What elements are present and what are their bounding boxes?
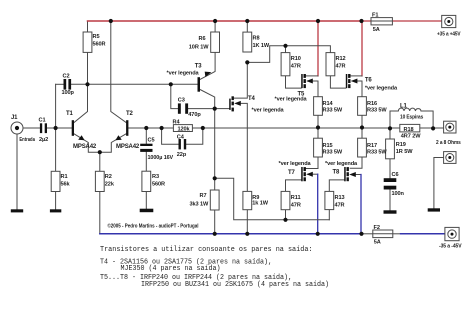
svg-text:R2: R2: [105, 174, 112, 180]
svg-text:Transistores a utilizar consoa: Transistores a utilizar consoante os par…: [100, 246, 313, 254]
wire C3 to VAS node: [188, 108, 215, 110]
wire fuse F1 to +V connector: [392, 20, 441, 22]
capacitor C3: [178, 103, 188, 113]
wire R11 to T7 gate: [286, 180, 302, 192]
wire red drop to T5 drain: [317, 21, 319, 76]
svg-text:22p: 22p: [177, 152, 187, 158]
wire output rail to R17: [361, 128, 363, 139]
svg-text:100p: 100p: [62, 90, 75, 96]
resistor R17: [358, 138, 367, 157]
ground at J1: [11, 209, 23, 212]
svg-text:R12: R12: [336, 56, 346, 62]
wire tail to R2: [99, 152, 101, 171]
svg-text:1K 1W: 1K 1W: [253, 43, 270, 49]
wire T2 collector to red rail: [111, 21, 126, 123]
wire R13 bottom to bias line: [328, 210, 330, 220]
connector -V: [445, 227, 459, 240]
resistor R10: [281, 53, 290, 76]
wire red rail to fuse F1: [362, 20, 372, 22]
node C3 tap: [169, 82, 173, 86]
wire J1 to C1: [23, 127, 40, 129]
node red rail at T5 drop: [316, 19, 320, 23]
wire R8 top to red rail: [246, 21, 248, 32]
node R7 branch: [213, 176, 217, 180]
svg-text:*ver legenda: *ver legenda: [365, 86, 398, 92]
fuse F1: [371, 18, 392, 25]
svg-text:*ver legenda: *ver legenda: [279, 161, 312, 167]
node blue rail at T7 source: [316, 232, 320, 236]
wire R3 to ground: [145, 192, 147, 209]
node input: [54, 126, 58, 130]
node bias at R11: [283, 218, 287, 222]
svg-text:MJE350 (4 pares na saída): MJE350 (4 pares na saída): [121, 265, 221, 273]
svg-text:+35 a +45V: +35 a +45V: [437, 32, 461, 38]
svg-text:R3: R3: [152, 174, 159, 180]
wire C5 branch down: [145, 128, 147, 144]
wire T6 source to R16: [352, 81, 362, 97]
svg-text:100n: 100n: [392, 191, 405, 197]
wire T1 emitter to tail: [74, 134, 126, 152]
ground at R3: [140, 209, 154, 213]
svg-text:F1: F1: [372, 13, 378, 19]
resistor R13: [325, 191, 334, 209]
svg-text:R10: R10: [291, 56, 301, 62]
resistor R7: [210, 190, 219, 210]
capacitor C5 electrolytic: [140, 144, 152, 152]
wire bias branch: [215, 178, 330, 220]
svg-text:R33 5W: R33 5W: [367, 149, 387, 155]
wire L1 right down: [421, 111, 433, 128]
svg-text:560R: 560R: [152, 182, 165, 188]
svg-text:C4: C4: [177, 135, 185, 141]
wire R8 bottom staircase to R10 R12: [247, 46, 330, 63]
svg-text:©2005 - Pedro Martins - audioP: ©2005 - Pedro Martins - audioPT - Portug…: [108, 222, 200, 229]
wire R9 to blue rail: [246, 210, 248, 234]
transistor T1: [72, 120, 85, 140]
connector speaker out: [444, 121, 456, 133]
svg-text:R11: R11: [291, 195, 301, 201]
svg-text:R33 5W: R33 5W: [367, 107, 387, 113]
svg-text:*ver legenda: *ver legenda: [167, 71, 200, 77]
wire VAS node to T4 gate: [215, 108, 230, 110]
wire speaker return connector: [434, 158, 444, 209]
resistor R8: [243, 32, 252, 52]
svg-text:R7: R7: [200, 193, 207, 199]
wire red drop to T6 drain: [361, 21, 363, 76]
node R14 R15 output: [316, 125, 320, 129]
wire R6 to red rail: [214, 21, 216, 32]
svg-text:T2: T2: [126, 111, 134, 117]
node L1 R19: [388, 126, 392, 130]
node C2 at T1 collector: [85, 82, 89, 86]
node blue rail at F2: [359, 232, 363, 236]
wire R16 to output rail: [361, 115, 363, 127]
node emitter tail: [98, 150, 102, 154]
node R16 R17 output: [360, 125, 364, 129]
wire R2 to blue rail corner: [99, 192, 101, 234]
svg-text:120k: 120k: [178, 127, 191, 133]
wire input node vertical: [55, 84, 57, 171]
node red rail at R8: [245, 19, 249, 23]
capacitor C1: [40, 123, 47, 133]
wire T5 source to R14: [308, 81, 319, 97]
wire C6 to ground: [389, 190, 391, 211]
node red rail at T2 collector: [109, 19, 113, 23]
svg-text:R18: R18: [404, 127, 414, 133]
wire T4 drain to R8 node: [234, 62, 247, 98]
connector J1: [11, 122, 23, 134]
wire C5 to R3: [145, 152, 147, 171]
wire blue rail to fuse F2: [362, 233, 373, 235]
resistor R15: [314, 138, 323, 157]
svg-text:R6: R6: [199, 36, 206, 42]
capacitor C2: [64, 79, 72, 90]
svg-text:F2: F2: [374, 225, 380, 231]
wire C1 to T1 base: [47, 127, 72, 129]
wire L1 branch up: [390, 111, 398, 128]
resistor R3: [142, 171, 151, 191]
fuse F2: [373, 230, 393, 238]
svg-text:R15: R15: [323, 143, 333, 149]
wire C4 branch: [162, 128, 179, 144]
wire C4 return: [186, 128, 203, 144]
resistor R19: [386, 139, 395, 159]
ground at speaker return: [428, 208, 440, 211]
svg-text:R1: R1: [61, 174, 68, 180]
svg-text:*ver legenda: *ver legenda: [252, 108, 285, 114]
node C4 right: [201, 126, 205, 130]
node blue rail at R9: [245, 232, 249, 236]
svg-text:Entrada: Entrada: [19, 137, 35, 143]
svg-text:J1: J1: [11, 115, 18, 121]
wire R10 top: [285, 46, 287, 53]
wire T4 source down to R9: [241, 103, 248, 191]
svg-text:R13: R13: [335, 195, 345, 201]
node red rail at F1: [359, 19, 363, 23]
svg-text:T1: T1: [66, 111, 74, 117]
svg-text:T6: T6: [365, 78, 373, 84]
wire C3 branch from base line: [171, 84, 178, 108]
resistor R12: [326, 53, 335, 76]
svg-text:470p: 470p: [188, 112, 201, 118]
svg-text:2µ2: 2µ2: [39, 137, 48, 143]
svg-text:R33 5W: R33 5W: [323, 149, 343, 155]
transistor T4: [229, 96, 241, 111]
resistor R16: [358, 97, 367, 116]
svg-text:C2: C2: [63, 74, 70, 80]
wire R7 to blue rail: [214, 210, 216, 234]
svg-text:-35 a -45V: -35 a -45V: [439, 244, 462, 250]
svg-text:10R 1W: 10R 1W: [189, 45, 209, 51]
transistor T3: [198, 72, 212, 92]
svg-text:R17: R17: [367, 143, 377, 149]
node red rail at R6: [213, 19, 217, 23]
wire C2 to T3 base: [71, 83, 197, 85]
connector speaker return: [444, 152, 456, 164]
node blue rail at R7: [213, 232, 217, 236]
svg-text:*ver legenda: *ver legenda: [325, 161, 358, 167]
wire output rail to R15: [317, 128, 319, 139]
svg-text:47R: 47R: [336, 64, 346, 70]
wire R10 to T5 gate: [286, 76, 302, 88]
resistor R11: [281, 191, 290, 209]
wire blue negative rail: [100, 233, 362, 235]
wire VAS node down to R7 junction: [214, 109, 216, 190]
node C4 left: [160, 126, 164, 130]
svg-text:C3: C3: [178, 98, 185, 104]
node C5 tap: [144, 126, 148, 130]
svg-text:R5: R5: [93, 34, 100, 40]
wire R11 bottom to bias line: [285, 210, 287, 220]
svg-text:R16: R16: [367, 101, 377, 107]
svg-text:T8: T8: [333, 170, 341, 176]
svg-text:R14: R14: [323, 101, 334, 107]
svg-text:10 Espiras: 10 Espiras: [400, 115, 423, 121]
svg-text:T3: T3: [195, 64, 203, 70]
svg-text:1000µ 16V: 1000µ 16V: [148, 155, 174, 161]
wire R18 to speaker connector: [433, 127, 444, 129]
transistor T2: [115, 120, 128, 140]
resistor R4: [173, 125, 192, 132]
svg-text:3k3 1W: 3k3 1W: [190, 202, 209, 208]
resistor R14: [314, 97, 323, 116]
svg-text:L1: L1: [400, 104, 408, 110]
svg-text:560R: 560R: [93, 42, 106, 48]
wire R1 to ground: [55, 192, 57, 210]
wire R14 to output rail: [317, 115, 319, 127]
wire J1 to ground: [16, 134, 18, 209]
svg-text:*ver legenda: *ver legenda: [275, 97, 308, 103]
svg-text:IRFP250 ou BUZ341 ou 2SK1675 (: IRFP250 ou BUZ341 ou 2SK1675 (4 pares na…: [141, 281, 329, 289]
ground at R1: [50, 209, 61, 212]
ground at C6: [384, 210, 397, 213]
wire output rail: [192, 127, 433, 129]
wire T8 source to blue rail: [352, 174, 361, 176]
svg-text:56k: 56k: [61, 182, 71, 188]
node R8 bottom: [245, 60, 249, 64]
transistor T5: [301, 74, 313, 88]
svg-text:C6: C6: [392, 172, 399, 178]
svg-text:47R: 47R: [335, 203, 345, 209]
svg-text:47R: 47R: [291, 64, 301, 70]
wire T3 collector down: [200, 90, 215, 109]
wire R5 top to rail: [87, 21, 89, 32]
resistor R5: [83, 32, 92, 52]
svg-text:47R: 47R: [291, 203, 301, 209]
node VAS: [213, 107, 217, 111]
svg-text:MPSA42: MPSA42: [73, 144, 97, 150]
wire T1 collector to R5: [74, 52, 88, 122]
wire T2 base / feedback node: [128, 127, 173, 129]
svg-text:MPSA42: MPSA42: [116, 144, 140, 150]
transistor T7: [301, 167, 313, 181]
svg-text:5A: 5A: [373, 27, 380, 33]
svg-text:5A: 5A: [374, 240, 381, 246]
node L1 right: [431, 126, 435, 130]
resistor R2: [95, 171, 104, 191]
connector +V: [442, 15, 456, 27]
svg-text:22k: 22k: [105, 182, 115, 188]
wire R12 to T6 gate: [330, 76, 345, 88]
wire R19 to C6: [389, 159, 391, 178]
resistor R18: [400, 124, 420, 131]
svg-text:C1: C1: [39, 118, 46, 124]
svg-text:T4: T4: [248, 96, 256, 102]
svg-text:2 a 8 Ohms: 2 a 8 Ohms: [436, 140, 461, 146]
svg-text:R19: R19: [396, 142, 406, 148]
transistor T8: [344, 167, 356, 181]
wire R13 to T8 gate: [329, 180, 344, 192]
svg-text:1R 5W: 1R 5W: [396, 149, 413, 155]
wire R19 down: [389, 128, 391, 138]
transistor T6: [346, 74, 358, 88]
wire R15 to T7 drain: [306, 157, 318, 169]
node R10 top: [283, 44, 287, 48]
wire T3 emitter to R6: [200, 52, 215, 79]
wire R17 to T8 drain: [350, 157, 362, 168]
wire red positive rail: [88, 20, 362, 22]
svg-text:T7: T7: [288, 170, 296, 176]
svg-text:R8: R8: [253, 36, 260, 42]
svg-text:C5: C5: [148, 138, 155, 144]
svg-text:1k 1W: 1k 1W: [252, 201, 268, 207]
wire input node to C2: [56, 83, 64, 85]
resistor R6: [211, 32, 220, 52]
svg-text:R4: R4: [173, 120, 181, 126]
resistor R9: [243, 191, 252, 209]
inductor L1: [398, 108, 421, 111]
capacitor C6: [384, 178, 397, 189]
wire fuse F2 to -V connector: [393, 233, 401, 235]
svg-text:R33 5W: R33 5W: [323, 107, 343, 113]
svg-text:4R7 2W: 4R7 2W: [401, 134, 421, 140]
resistor R1: [51, 171, 60, 191]
wire T7 source to blue rail: [308, 173, 318, 175]
capacitor C4: [179, 139, 187, 149]
